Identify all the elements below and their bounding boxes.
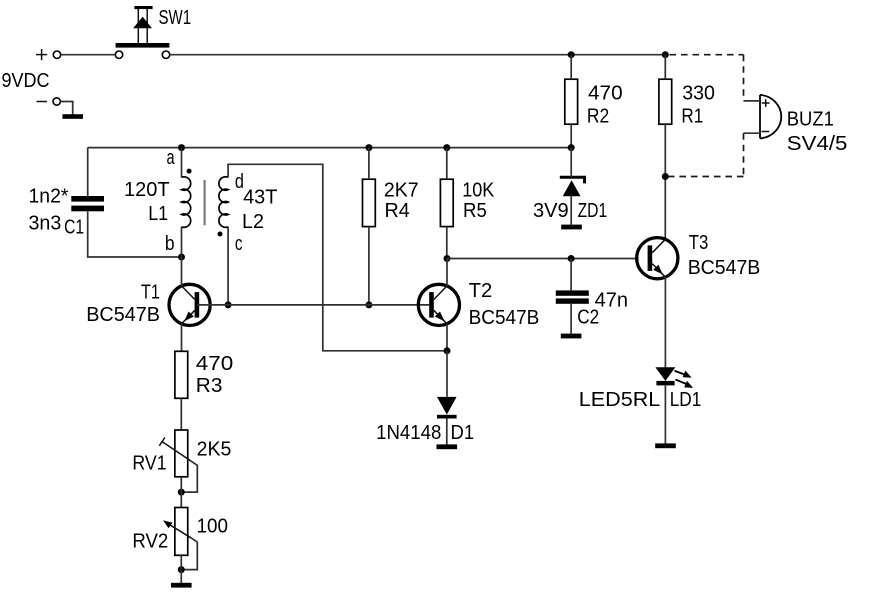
resistor R1	[659, 79, 672, 124]
wire R5 bottom lead	[446, 227, 448, 259]
wire R2 bottom lead	[570, 124, 572, 147]
svg-text:C1: C1	[64, 216, 84, 238]
ground under D1	[437, 444, 458, 449]
svg-text:c: c	[235, 233, 243, 255]
transformer core	[204, 180, 206, 225]
svg-text:BC547B: BC547B	[469, 307, 540, 329]
battery minus terminal	[37, 101, 48, 103]
SW1 contact pin right	[162, 51, 169, 58]
svg-text:9VDC: 9VDC	[2, 70, 50, 92]
wire RV1 to RV2	[180, 477, 182, 508]
svg-text:LD1: LD1	[670, 389, 702, 411]
wire D1 cathode lead	[446, 418, 448, 444]
svg-text:3V9: 3V9	[533, 200, 569, 222]
junction R2 rail2	[568, 144, 575, 151]
svg-text:2K5: 2K5	[197, 439, 232, 461]
svg-text:3n3: 3n3	[29, 212, 62, 234]
transistor T2 BC547B	[418, 284, 459, 325]
wire T3 emitter to LED	[664, 277, 666, 367]
svg-text:C2: C2	[577, 307, 599, 329]
transistor T1 BC547B	[169, 284, 210, 325]
battery plus pin circle	[53, 51, 60, 58]
resistor R3	[175, 351, 188, 398]
dashed wire buzzer plus drop	[743, 55, 745, 101]
junction C2 top	[568, 255, 575, 262]
diode D1 1N4148	[437, 397, 457, 419]
wire L1 top lead	[181, 148, 183, 178]
wire T1 emitter lead	[181, 324, 183, 352]
svg-text:b: b	[165, 233, 175, 255]
zener diode ZD1	[560, 177, 585, 196]
svg-text:330: 330	[682, 82, 715, 104]
svg-text:a: a	[167, 147, 176, 169]
svg-text:T2: T2	[469, 280, 493, 302]
svg-text:R4: R4	[385, 200, 410, 222]
junction L2 c on base wire	[225, 301, 232, 308]
svg-text:R3: R3	[196, 375, 223, 397]
wire RV2 to ground	[180, 555, 182, 583]
svg-text:120T: 120T	[124, 179, 170, 201]
resistor R4	[363, 179, 376, 226]
svg-text:SV4/5: SV4/5	[787, 133, 848, 155]
svg-text:BUZ1: BUZ1	[787, 109, 834, 131]
wire L1 bottom lead	[181, 227, 183, 257]
dashed wire buzzer minus drop	[743, 133, 745, 176]
wire R5 top lead	[446, 148, 448, 180]
wire R3 to RV1	[180, 398, 182, 430]
junction RV2 wiper	[178, 566, 185, 573]
inductor L1	[182, 177, 191, 227]
junction buzzer return	[662, 173, 669, 180]
wire R2 top lead	[570, 55, 572, 79]
battery plus terminal	[36, 49, 47, 60]
wire top rail SW1 to R1	[170, 54, 666, 56]
svg-text:R2: R2	[587, 105, 609, 127]
transistor T3 BC547B	[637, 238, 678, 279]
wire buzzer minus stub	[744, 132, 761, 134]
wire C2 top lead	[570, 259, 572, 291]
svg-text:1N4148: 1N4148	[376, 422, 441, 444]
wire L2 c lead	[227, 227, 229, 305]
svg-text:2K7: 2K7	[384, 179, 419, 201]
svg-text:R5: R5	[463, 200, 487, 222]
battery minus pin circle	[53, 98, 60, 105]
node a junction	[178, 144, 185, 151]
wire R5 node to T3 base	[447, 258, 639, 260]
buzzer BUZ1	[760, 95, 781, 138]
wire R1 top lead	[664, 55, 666, 79]
switch SW1 pushbutton	[116, 6, 170, 48]
resistor R2	[565, 79, 578, 124]
svg-text:RV2: RV2	[132, 531, 168, 553]
ground under battery minus	[62, 114, 83, 119]
wire R1 bottom to T3 collector	[664, 124, 666, 239]
ground under RV2	[171, 583, 192, 588]
ground under ZD1	[561, 225, 582, 230]
svg-text:47n: 47n	[595, 289, 628, 311]
wire ZD1 cathode lead	[570, 148, 572, 177]
junction R5 rail2	[443, 144, 450, 151]
wire C1 top lead	[87, 148, 89, 196]
svg-text:43T: 43T	[243, 187, 277, 209]
svg-text:D1: D1	[451, 422, 475, 444]
svg-text:RV1: RV1	[132, 452, 166, 474]
junction RV1 wiper	[178, 489, 185, 496]
potentiometer RV2	[163, 508, 197, 570]
wire T2 emitter lead	[446, 324, 448, 351]
dashed wire top rail to buzzer	[670, 54, 744, 56]
wire L2 d to T2 emitter node	[228, 164, 447, 350]
trimmer RV1	[159, 430, 197, 492]
wire base T1 to T2	[197, 304, 429, 306]
junction R4 rail2	[365, 144, 372, 151]
svg-text:R1: R1	[681, 105, 703, 127]
svg-text:ZD1: ZD1	[578, 200, 608, 222]
junction R4 on base wire	[365, 301, 372, 308]
dashed wire buzzer return	[669, 176, 744, 178]
svg-text:100: 100	[197, 516, 228, 538]
svg-text:T3: T3	[689, 232, 709, 254]
inductor L2	[219, 177, 228, 227]
node b junction	[178, 254, 185, 261]
svg-text:BC547B: BC547B	[688, 257, 761, 279]
wire C2 bottom lead	[570, 304, 572, 334]
L1 polarity dot	[187, 169, 192, 174]
wire rail2 horizontal	[88, 147, 572, 149]
svg-text:SW1: SW1	[159, 7, 192, 29]
svg-text:T1: T1	[141, 281, 160, 303]
wire plus to SW1	[61, 54, 116, 56]
capacitor C2	[556, 290, 589, 303]
ground under C2	[561, 334, 582, 339]
SW1 contact pin left	[115, 51, 122, 58]
wire T1 collector lead	[181, 257, 183, 286]
L2 polarity dot	[218, 232, 223, 237]
resistor R5	[440, 179, 453, 226]
svg-text:L1: L1	[148, 203, 168, 225]
svg-text:BC547B: BC547B	[86, 304, 160, 326]
capacitor C1	[71, 196, 104, 211]
wire ZD1 anode lead	[570, 196, 572, 225]
wire LED cathode lead	[664, 385, 666, 443]
LED LD1	[655, 367, 693, 388]
junction top rail R2	[568, 51, 575, 58]
svg-text:1n2*: 1n2*	[29, 186, 69, 208]
wire R4 bottom lead	[368, 227, 370, 305]
wire T2 collector lead	[446, 259, 448, 287]
junction T2 emitter node	[444, 347, 451, 354]
svg-text:LED5RL: LED5RL	[579, 389, 661, 411]
ground under LED	[655, 443, 676, 448]
svg-text:L2: L2	[242, 211, 264, 233]
svg-text:10K: 10K	[462, 179, 495, 201]
wire minus to ground	[60, 102, 72, 115]
junction top rail R1	[662, 51, 669, 58]
wire D1 anode lead	[446, 351, 448, 397]
wire C1 bottom lead	[88, 211, 182, 257]
svg-text:470: 470	[196, 353, 234, 375]
junction R5 T2 collector node	[444, 255, 451, 262]
wire R4 top lead	[368, 148, 370, 180]
wire buzzer plus stub	[744, 100, 761, 102]
svg-text:470: 470	[588, 82, 623, 104]
